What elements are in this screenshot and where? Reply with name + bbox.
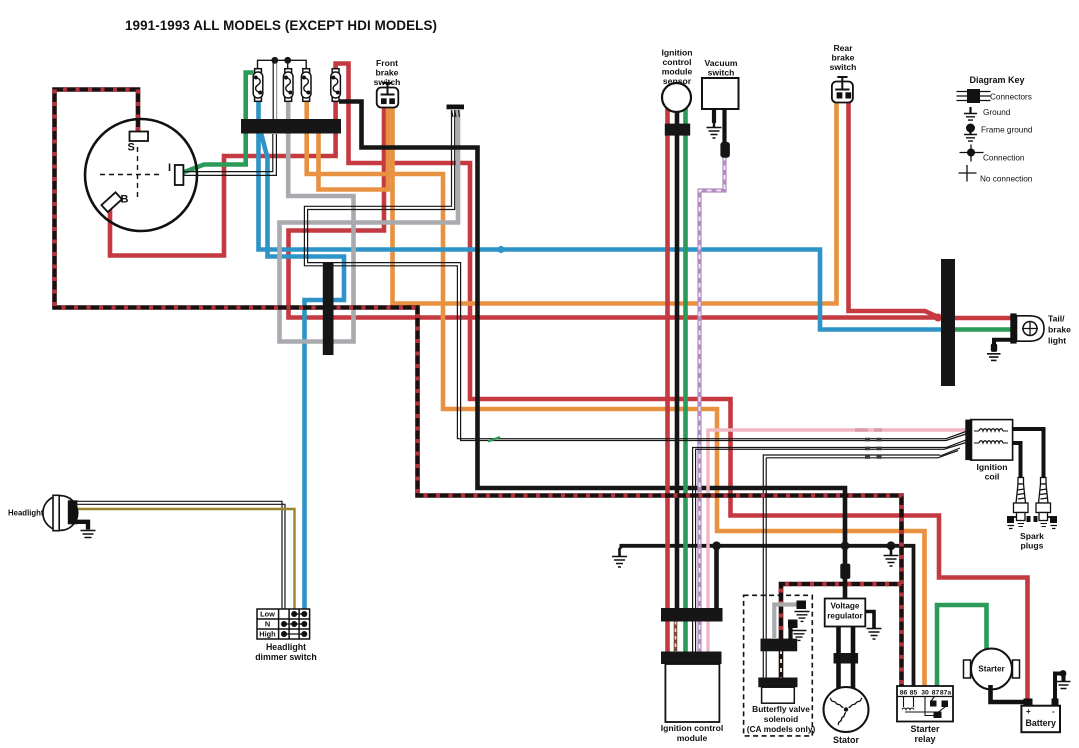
svg-text:87a: 87a bbox=[940, 690, 952, 697]
wire VR ground lead bbox=[865, 612, 874, 629]
butterfly solenoid dashed box bbox=[744, 595, 813, 736]
svg-text:Tail/: Tail/ bbox=[1048, 314, 1065, 324]
wire thin pair coil branch to solenoid bbox=[763, 455, 940, 679]
wire black ground rail bbox=[620, 546, 914, 686]
wire thin pair oil switch loop to coil upper bbox=[304, 110, 966, 439]
wire crimson front brake switch to tail junction bbox=[289, 105, 939, 318]
wire crimson main: fuse4 top loop to battery bbox=[336, 64, 1028, 707]
diagram key bbox=[957, 89, 991, 182]
starter body bbox=[964, 649, 1020, 690]
solenoid gray wire bbox=[774, 605, 798, 640]
vacuum switch body bbox=[702, 78, 739, 109]
solenoid black wire bbox=[788, 625, 792, 639]
svg-text:-: - bbox=[1052, 707, 1055, 716]
wire orange front brake switch to rear brake switch bbox=[393, 100, 837, 304]
svg-text:Diagram Key: Diagram Key bbox=[969, 75, 1024, 85]
connector vacuum switch bullet bbox=[720, 142, 730, 158]
svg-text:Rear: Rear bbox=[833, 43, 853, 53]
svg-text:Ground: Ground bbox=[983, 108, 1011, 117]
ground voltage regulator bbox=[867, 629, 882, 640]
svg-text:30: 30 bbox=[921, 690, 929, 697]
svg-text:control: control bbox=[662, 57, 691, 67]
headlight bulb bbox=[43, 495, 78, 530]
wire thin fuse top jumper bbox=[258, 60, 307, 69]
svg-text:Voltage: Voltage bbox=[831, 602, 860, 611]
connector voltage regulator lead bbox=[840, 564, 850, 579]
svg-text:Ignition control: Ignition control bbox=[661, 723, 724, 733]
connector solenoid band 1 bbox=[761, 639, 798, 652]
ground vacuum switch bbox=[707, 123, 722, 138]
headlight dimmer switch table bbox=[257, 609, 310, 639]
svg-text:relay: relay bbox=[914, 734, 935, 744]
svg-text:I: I bbox=[168, 162, 171, 174]
ICM module box bbox=[665, 664, 719, 722]
wire ICM sensor red bbox=[665, 108, 670, 609]
wire harness branch red overlay bbox=[781, 584, 902, 640]
svg-text:85: 85 bbox=[910, 690, 918, 697]
wire battery negative to ground bbox=[1052, 699, 1059, 707]
wire main harness dashed (ignition switch S to relay) base bbox=[55, 90, 902, 687]
wire black fuse4 to voltage regulator bbox=[339, 102, 845, 600]
svg-text:Starter: Starter bbox=[978, 665, 1005, 674]
solenoid ground terminal 1 bbox=[795, 601, 810, 622]
ignition switch body bbox=[85, 119, 197, 231]
connector stator band bbox=[834, 653, 859, 664]
wire green tail light segment after connector bbox=[954, 327, 1012, 332]
wire coil to spark plug left bbox=[1013, 443, 1021, 477]
fuse F1 bbox=[253, 69, 263, 102]
svg-text:coil: coil bbox=[985, 472, 1000, 482]
svg-text:S: S bbox=[128, 142, 135, 154]
ignition switch terminal B bbox=[101, 192, 121, 212]
stator body bbox=[824, 687, 869, 732]
svg-text:Vacuum: Vacuum bbox=[705, 58, 738, 68]
svg-text:module: module bbox=[677, 733, 708, 743]
svg-text:Ignition: Ignition bbox=[976, 462, 1007, 472]
ignition switch terminal I bbox=[175, 165, 184, 185]
svg-text:High: High bbox=[259, 630, 276, 639]
node junction dot jumper a bbox=[271, 57, 278, 64]
node junction dot rail to ICM bbox=[712, 541, 721, 550]
ground tail light bbox=[987, 354, 1001, 361]
wire headlight ground lead bbox=[76, 522, 88, 530]
spark plug 1 bbox=[1007, 478, 1031, 529]
fuse F2 bbox=[283, 69, 293, 102]
svg-text:Front: Front bbox=[376, 58, 398, 68]
svg-text:(CA models only): (CA models only) bbox=[747, 724, 816, 734]
wire headlight white pair to dimmer bbox=[77, 501, 282, 610]
svg-text:Spark: Spark bbox=[1020, 531, 1044, 541]
solenoid coil box bbox=[762, 687, 795, 703]
vacuum switch left lead wire bbox=[712, 109, 716, 123]
wire orange fuse3 to starter relay 30 bbox=[307, 97, 925, 686]
svg-text:switch: switch bbox=[830, 62, 857, 72]
connector ICM sensor bbox=[665, 124, 690, 136]
wire ICM green between connectors bbox=[683, 621, 688, 652]
wire blue branch to headlight dimmer switch bbox=[261, 133, 344, 610]
svg-text:Frame ground: Frame ground bbox=[981, 126, 1033, 135]
node junction dot blue run bbox=[497, 246, 504, 253]
battery box bbox=[1021, 706, 1060, 733]
wire starter to battery bbox=[991, 685, 1025, 702]
wire green ignition switch I to fuse1 bbox=[183, 73, 254, 173]
wire crimson battery feed: fuse4 bottom to ignition switch B bbox=[110, 97, 336, 256]
svg-text:dimmer switch: dimmer switch bbox=[255, 652, 317, 662]
wire orange accessory branch bar to front brake switch bbox=[319, 106, 389, 190]
svg-text:regulator: regulator bbox=[827, 612, 863, 621]
wire thin white pair ignition switch I to connector bar bbox=[183, 134, 273, 172]
wire ICM sensor green bbox=[683, 108, 688, 609]
svg-text:sensor: sensor bbox=[663, 76, 692, 86]
svg-text:87: 87 bbox=[932, 690, 940, 697]
wire ICM sensor black bbox=[675, 108, 680, 609]
wire crimson rear brake switch to tail light bbox=[849, 100, 1013, 318]
wire VR to stator black pair bbox=[839, 627, 854, 689]
svg-text:+: + bbox=[1026, 707, 1031, 716]
fuse F3 bbox=[301, 69, 311, 102]
ground rail left bbox=[612, 546, 627, 567]
ignition switch terminal S bbox=[130, 132, 149, 142]
svg-text:86: 86 bbox=[900, 690, 908, 697]
ignition coil body bbox=[965, 420, 1012, 461]
tail light bulb bbox=[1010, 313, 1044, 343]
svg-text:solenoid: solenoid bbox=[764, 714, 798, 724]
svg-text:1991-1993 ALL MODELS (EXCEPT H: 1991-1993 ALL MODELS (EXCEPT HDI MODELS) bbox=[125, 18, 437, 33]
node junction dot rail to VR bbox=[841, 541, 850, 550]
front brake switch body bbox=[377, 83, 399, 108]
svg-text:Low: Low bbox=[260, 610, 275, 619]
svg-text:switch: switch bbox=[374, 77, 401, 87]
wire black rail drop to ICM connector bbox=[714, 546, 719, 609]
ICM sensor body bbox=[662, 83, 691, 112]
wire blue fuse1 to tail light run bbox=[259, 97, 942, 330]
wire lavender vacuum switch to ICM bbox=[700, 156, 725, 652]
svg-text:Connection: Connection bbox=[983, 154, 1025, 163]
connector solenoid band 2 bbox=[758, 678, 797, 688]
connector bar handlebar (vertical mid-left) bbox=[323, 262, 334, 355]
node junction dot rail mid ground bbox=[887, 541, 896, 550]
wire headlight olive to dimmer bbox=[77, 509, 295, 610]
svg-text:Battery: Battery bbox=[1026, 718, 1056, 728]
svg-text:B: B bbox=[121, 194, 129, 206]
wire gray fuse2 loop to oil pressure switch bbox=[280, 97, 459, 342]
svg-text:Butterfly valve: Butterfly valve bbox=[752, 704, 810, 714]
svg-text:Ignition: Ignition bbox=[661, 48, 692, 58]
svg-text:Headlight: Headlight bbox=[8, 509, 44, 518]
node green tick on thin wire bbox=[488, 437, 500, 442]
spark plug 2 bbox=[1034, 478, 1058, 529]
wire dashed inside solenoid base bbox=[779, 650, 784, 679]
wire ICM crimson between connectors bbox=[665, 621, 670, 652]
wire tail light ground lead bbox=[994, 340, 1011, 344]
oil pressure switch cap bbox=[447, 105, 465, 118]
wire ICM brown dashed between connectors bbox=[674, 621, 678, 652]
wire thin fuse2 top stub bbox=[287, 60, 289, 69]
wire main harness dashed red overlay bbox=[55, 90, 902, 687]
connector bar top (main harness connector) bbox=[241, 119, 341, 134]
svg-text:Headlight: Headlight bbox=[266, 642, 306, 652]
svg-text:switch: switch bbox=[708, 68, 735, 78]
ground headlight bbox=[81, 531, 96, 538]
svg-text:Stator: Stator bbox=[833, 735, 860, 745]
wire green starter relay 87 to starter bbox=[937, 605, 987, 686]
svg-text:plugs: plugs bbox=[1021, 541, 1044, 551]
svg-text:module: module bbox=[662, 67, 693, 77]
node battery positive blob bbox=[1024, 699, 1033, 707]
ignition switch crosshair bbox=[100, 147, 160, 201]
wire coil to spark plug right bbox=[1013, 429, 1044, 477]
connector ICM band 2 bbox=[661, 652, 722, 665]
wire thin pair ICM to coil lower bbox=[693, 440, 966, 652]
svg-text:brake: brake bbox=[1048, 325, 1071, 335]
fuse F4 bbox=[331, 69, 341, 102]
wire thin white pair jumper to bar bbox=[272, 60, 274, 120]
node junction dot crimson at bar bbox=[934, 314, 942, 322]
solenoid ground terminal 2 bbox=[788, 620, 807, 641]
svg-text:Connectors: Connectors bbox=[990, 93, 1032, 102]
ground battery bbox=[1057, 682, 1071, 689]
voltage regulator box bbox=[825, 599, 866, 627]
svg-text:Starter: Starter bbox=[910, 724, 940, 734]
wire connector splice marks on coil wires bbox=[865, 438, 882, 442]
ground rail mid bbox=[884, 546, 899, 566]
wire pink ICM to ignition coil bbox=[708, 430, 966, 652]
rear brake switch body bbox=[832, 77, 853, 103]
svg-text:brake: brake bbox=[376, 68, 399, 78]
svg-text:brake: brake bbox=[832, 53, 855, 63]
connector ICM band 1 bbox=[661, 608, 723, 622]
node junction dot jumper b bbox=[284, 57, 291, 64]
starter relay box bbox=[897, 686, 953, 722]
vacuum switch right lead wire bbox=[722, 109, 726, 143]
svg-text:N: N bbox=[265, 620, 270, 629]
svg-text:light: light bbox=[1048, 336, 1066, 346]
wire dashed inside solenoid overlay bbox=[780, 650, 782, 679]
svg-text:No connection: No connection bbox=[980, 175, 1033, 184]
wire harness branch to butterfly solenoid base bbox=[781, 584, 902, 640]
connector bar rear (vertical right) bbox=[941, 259, 955, 386]
